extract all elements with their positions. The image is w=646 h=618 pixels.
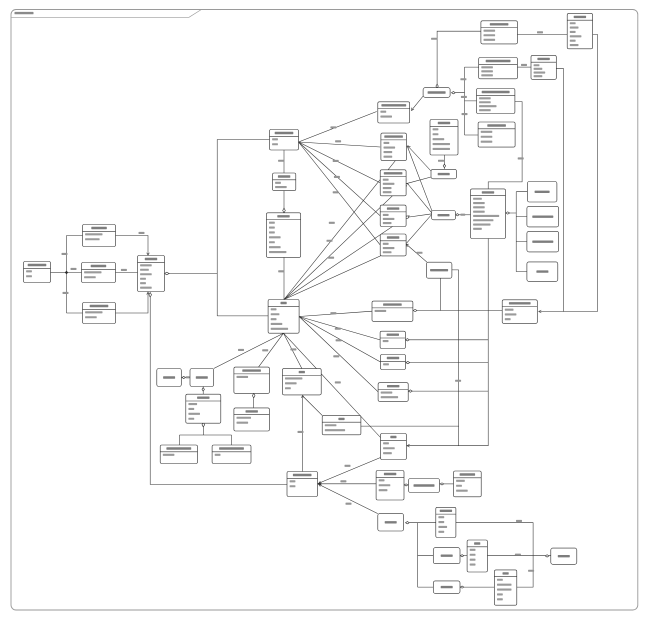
wire 房间-远程管理 [487, 555, 550, 557]
node 已执行完毕订单 [527, 231, 559, 252]
label 更改 [139, 232, 145, 234]
label 删除 [335, 328, 341, 330]
label 组成 [417, 252, 423, 254]
class 房间 [467, 540, 487, 572]
wire 酒店信息更改-订单列表 [408, 184, 433, 214]
wire 充值-网站维护人员 [302, 396, 304, 472]
diamond 维护个人信息 right [413, 309, 417, 311]
class 审核 [381, 434, 407, 460]
wire 酒店工作人员-维护信息 [283, 150, 285, 173]
wire 入住登记信息-订单列表 [407, 146, 432, 211]
class 维护个人信息 [372, 301, 413, 321]
wire 订单列表-客户订单 [455, 214, 470, 216]
class 三晚以上预定特惠 [477, 89, 515, 114]
wire 订单确定-bus [410, 362, 489, 364]
wire 客户-入住登记信息 [284, 147, 407, 300]
arrow 入住登记信息 right [407, 145, 411, 149]
arrow into 用户信息 top [147, 253, 150, 255]
diamond 用户信息 bottom [149, 293, 152, 298]
node 可配预定方法 [423, 88, 450, 98]
diamond 检查需求 right [406, 522, 410, 524]
node 未执行完毕订单 [527, 206, 559, 227]
wire 分析订单-未执行订单清单 [404, 484, 409, 486]
diamond 查看订单 right [409, 390, 413, 392]
wire 车辆特殊时间-普通会员 [517, 33, 567, 35]
wire fan 执行 [299, 142, 381, 216]
node 酒店列表 [433, 581, 460, 594]
arrow 网站维护人员 a [318, 481, 321, 484]
wire 客户-维护个人信息 [299, 311, 372, 316]
class 个人业务办理区 [502, 300, 537, 324]
diamond 客户订单 right [506, 212, 510, 214]
wire 订单结算-个人信息维护 [406, 244, 427, 262]
junction [65, 271, 68, 274]
wire 酒店信息-客户 [283, 257, 285, 299]
label 维护 [330, 312, 336, 314]
wire 订单执行-订单列表 [408, 214, 432, 217]
label 查询 [278, 270, 284, 272]
class 合作企业用户使用 [479, 58, 518, 79]
arrow 网站维护人员 c [318, 483, 321, 486]
diamond 注册申请 top [202, 388, 204, 392]
arrow into 用户信息 bottom [147, 292, 150, 294]
wire 客户-充值 [284, 333, 302, 368]
wire 网站管理人员-junction [51, 272, 67, 274]
wire 客户-酒店信息更改 [284, 184, 405, 299]
class 注册申请 [186, 394, 221, 423]
frame tab 会员网站类图 [11, 10, 201, 18]
label 确定 [336, 339, 342, 341]
label 使用 [521, 64, 527, 66]
diamond 分析订单 right [404, 484, 407, 486]
node 冻结订单 [527, 262, 558, 282]
arrow 酒店信息更改 right [405, 182, 409, 186]
label 注册 [238, 349, 244, 351]
label 充值 [290, 348, 296, 350]
class 经济会员注册申请 [212, 445, 251, 464]
arrow into 个人业务办理区 [539, 310, 542, 313]
label 评价 [262, 349, 268, 351]
label 执行 [334, 176, 340, 178]
label 入住 [335, 140, 341, 142]
class 入住登记信息 [381, 133, 407, 161]
wire 客户-订单删除 [299, 317, 380, 340]
label 取消 [438, 160, 444, 162]
arrow into 审核 right [407, 444, 410, 447]
wire 维护个人信息-个人业务办理区 [417, 310, 502, 312]
wire fan 更改 [299, 142, 381, 183]
diamond 房间列表 right [460, 555, 463, 557]
wire 车辆特殊时间-可配预定方法 [437, 31, 481, 84]
wire 客户订单-审核 [408, 239, 489, 446]
wire 竖线x216 [217, 140, 269, 316]
wire 房间列表-房间 [460, 555, 467, 557]
label 查询 [63, 292, 69, 294]
label 组成 [518, 157, 524, 159]
wire 普通会员-个人业务办理区 [540, 34, 598, 311]
class 会员等级 [436, 507, 456, 537]
class 订单结算 [380, 234, 406, 256]
wire 酒店列表-酒店 [460, 586, 494, 588]
class 订单执行 [380, 205, 406, 226]
label 制定 [330, 126, 336, 128]
wire 用户信息-竖线 [169, 273, 217, 275]
class 酒店 [494, 570, 516, 605]
wire 用户信息-网站维护人员 [150, 297, 287, 485]
class 企业会员注册申请 [160, 445, 197, 464]
diamond 订单执行 right [405, 215, 410, 220]
wire 评价酒店服务-评价确定 [253, 397, 255, 408]
wire bus417 [418, 523, 434, 587]
label 删除 [71, 268, 77, 270]
label 更改 [333, 160, 339, 162]
wire 客户-评价酒店服务 [259, 333, 284, 367]
label 组成 [528, 570, 534, 572]
wire 客户-订单确定 [299, 317, 380, 363]
node 远程管理 [551, 548, 577, 564]
class 网站维护人员 [287, 472, 318, 497]
node 会员系统 [157, 369, 182, 387]
diamond 用户信息 right [165, 272, 170, 275]
wire 客户订单-订单分类bus [510, 192, 528, 272]
label 发现 [298, 431, 304, 433]
node 个人信息维护 [426, 262, 452, 278]
class 普通会员 [567, 13, 592, 48]
class 回复 [322, 415, 361, 434]
diamond 取消服务 bottom [443, 164, 445, 168]
arrow 订单结算 right [405, 243, 409, 247]
diamond 远程管理 left [545, 555, 549, 557]
wire 竖线458 [452, 270, 459, 446]
diamond 注册申请 bottom [202, 422, 205, 427]
diamond 订单删除 right [406, 339, 410, 341]
wire 取消服务-取消列表 [443, 155, 445, 169]
label 查询 [329, 222, 335, 224]
label 远程 [516, 520, 522, 522]
wire 三晚以上预定特惠-客户订单 [488, 102, 522, 189]
wire 个人信息维护-bottom [439, 278, 441, 310]
class 车辆特殊时间 [481, 21, 518, 44]
wire 回复-竖线458 [361, 425, 459, 427]
class 订单确定 [381, 355, 406, 370]
wire 可配预定方法-bus464 [455, 67, 478, 135]
wire 查看订单-bus [412, 390, 488, 392]
label 入住 [327, 240, 333, 242]
arrow 网站维护人员 b [319, 482, 321, 485]
label 组成 [460, 214, 465, 216]
wire 订单删除-bus [409, 339, 488, 341]
wire 注册会员-注册申请 [202, 386, 204, 394]
wire fan 制定 [299, 112, 377, 143]
class 查看订单 [378, 383, 408, 402]
wire 添加新用户-用户信息 [116, 236, 149, 255]
label 结算 [333, 191, 339, 193]
label 分析 [340, 480, 346, 482]
arrow into 充值 bottom [301, 395, 304, 398]
class 酒店状态信息制定 [378, 102, 410, 123]
wire 检查需求-会员等级 [409, 522, 435, 524]
class 未执行订单 [454, 471, 482, 497]
class 酒店工作人员 [270, 130, 299, 151]
wire 合作企业用户使用-企业会员 [517, 66, 531, 68]
class 删除旧用户 [82, 263, 116, 283]
wire 客户-订单执行 [284, 218, 406, 300]
diamond 酒店列表 right [460, 586, 463, 588]
node 未执行订单清单 [409, 479, 440, 493]
wire 会员系统-注册会员 [182, 377, 191, 379]
node 检查需求 [378, 514, 404, 531]
wire fan 结算 [299, 142, 381, 245]
label 含有 [462, 113, 468, 115]
wire 充值-回复 [303, 396, 323, 415]
diamond 订单列表 right [456, 214, 459, 216]
class 特定时间折扣 [478, 122, 515, 147]
class 评价确定 [234, 408, 270, 431]
diamond 订单确定 right [406, 361, 410, 363]
label 预订 [328, 257, 334, 259]
label 查看 [333, 355, 339, 357]
label 使用 [537, 31, 543, 33]
label 提交 [455, 380, 461, 382]
diamond 可配预定方法 top [436, 84, 438, 88]
class 维护信息 [273, 173, 296, 191]
class 酒店信息更改 [380, 170, 406, 196]
wire 可配预定方法-酒店状态信息制定 [412, 95, 424, 110]
wire 网站维护人员-检查需求 [318, 484, 378, 514]
wire 入住登记信息-取消列表 [408, 147, 431, 172]
wire 网站维护人员-分析订单 [318, 483, 377, 485]
diamond 可配预定方法 right [452, 92, 456, 94]
wire 未执行订单清单-未执行订单 [440, 483, 454, 485]
wire fan 入住 [299, 142, 381, 147]
class 取消服务 [430, 120, 458, 156]
class 企业会员 [531, 55, 556, 79]
wire 客户-订单结算 [284, 245, 405, 300]
wire 查看用户信息-用户信息 [116, 293, 149, 314]
class 评价酒店服务 [234, 367, 270, 393]
label 投诉 [335, 381, 341, 383]
node 房间列表 [433, 548, 460, 564]
class 分析订单 [376, 471, 404, 501]
wire 订单结算-订单列表 [406, 214, 432, 244]
diamond 未执行订单清单 right [440, 483, 443, 485]
class 客户 [268, 300, 299, 334]
label 维护 [278, 160, 284, 162]
wire 会员等级-酒店 [456, 523, 533, 587]
wire 企业会员-个人业务办理区 [556, 69, 563, 312]
wire 维护信息-酒店信息 [283, 191, 285, 213]
label 含有 [461, 96, 467, 98]
diamond 注册会员 left [182, 376, 185, 378]
wire 网站维护人员-审核 [318, 458, 381, 484]
diamond 酒店信息 top [283, 208, 286, 213]
class 用户信息 [138, 256, 165, 292]
class 查看用户信息 [83, 303, 116, 324]
wire bus add/del/view [67, 236, 83, 314]
wire 客户-查看订单 [299, 317, 378, 392]
label 分为 [460, 78, 466, 80]
node 已确定订单 [527, 182, 557, 203]
label 添加 [62, 253, 68, 255]
node 订单列表 [432, 211, 456, 220]
class 酒店信息 [266, 213, 300, 258]
class 充值 [282, 369, 321, 395]
node 取消列表 [431, 169, 457, 179]
wire 注册申请-分支 [180, 426, 232, 445]
label 检查 [346, 503, 352, 505]
wire 酒店信息更改-取消列表 [406, 177, 431, 184]
class 网站管理人员 [24, 262, 51, 283]
label 管理 [121, 269, 127, 271]
wire 删除旧用户-用户信息 [116, 272, 138, 274]
label 查询 [515, 554, 521, 556]
label 分为 [431, 38, 437, 40]
wire 客户-审核 [284, 333, 381, 437]
label 审核 [345, 465, 351, 467]
node 注册会员 [190, 369, 214, 387]
class 添加新用户 [83, 225, 116, 247]
wire 客户-注册会员 [214, 333, 284, 368]
class 订单删除 [380, 331, 405, 348]
label 中止 [186, 376, 190, 378]
diamond 评价酒店服务 bottom [252, 393, 255, 398]
arrow into 酒店状态信息制定 [410, 108, 414, 112]
class 客户订单 [471, 189, 506, 239]
